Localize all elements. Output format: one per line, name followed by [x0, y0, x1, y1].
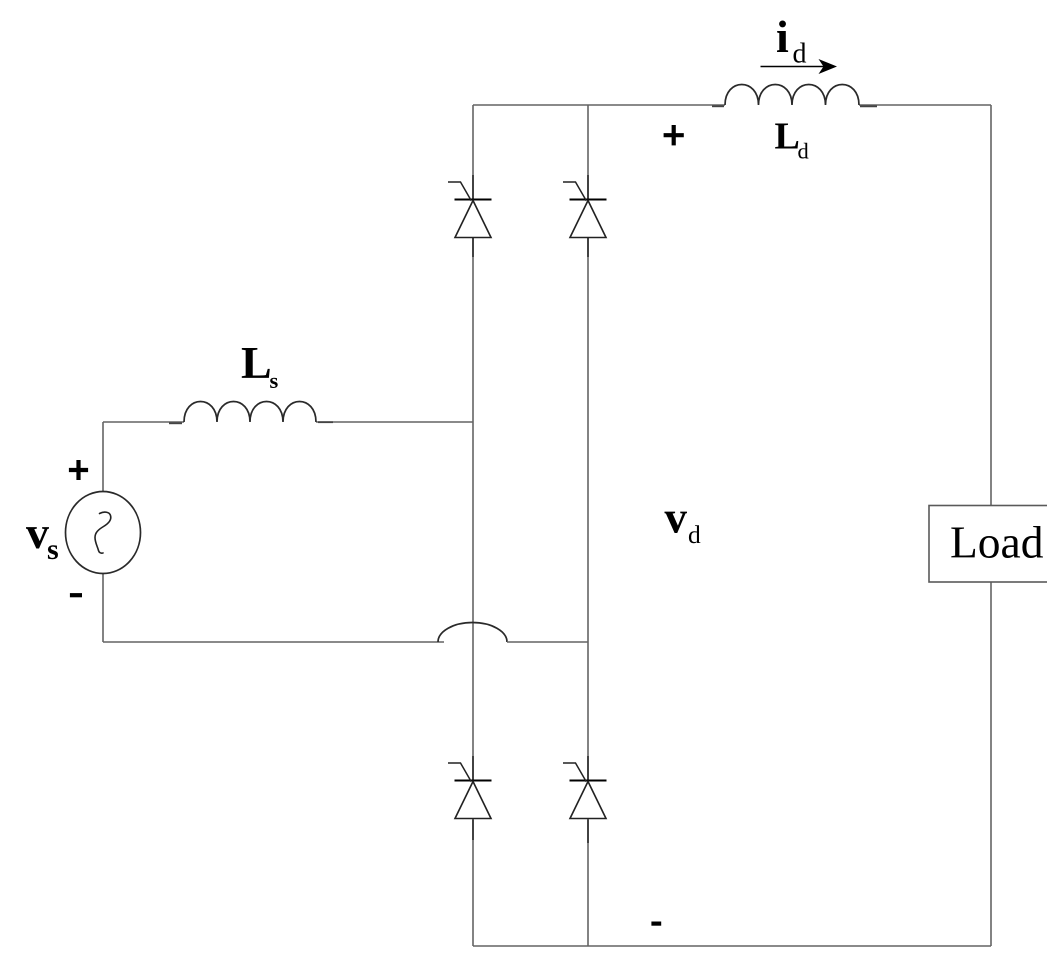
svg-text:L: L — [775, 116, 800, 158]
svg-text:d: d — [798, 139, 809, 164]
svg-text:Load: Load — [950, 517, 1044, 568]
svg-text:i: i — [776, 11, 789, 62]
svg-text:v: v — [665, 493, 688, 543]
svg-text:d: d — [688, 520, 701, 549]
svg-text:s: s — [270, 368, 279, 393]
svg-text:L: L — [241, 337, 272, 388]
svg-text:s: s — [47, 533, 59, 566]
svg-text:d: d — [793, 39, 807, 70]
svg-text:v: v — [26, 507, 49, 558]
